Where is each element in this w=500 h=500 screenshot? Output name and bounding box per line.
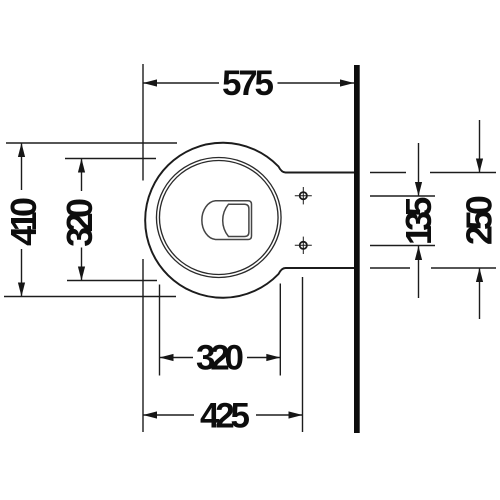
svg-text:250: 250 [458,195,499,245]
svg-text:320: 320 [196,339,244,378]
svg-text:575: 575 [222,64,274,103]
svg-text:135: 135 [398,197,439,246]
svg-text:410: 410 [3,197,44,246]
svg-text:320: 320 [59,198,100,247]
svg-text:425: 425 [200,397,250,436]
